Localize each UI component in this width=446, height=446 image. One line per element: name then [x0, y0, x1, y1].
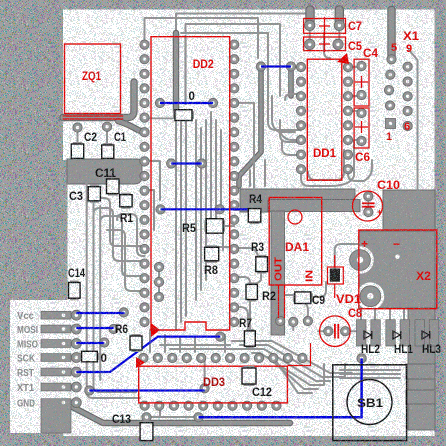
blue wire RST — [76, 337, 220, 372]
resistor R4 — [250, 207, 259, 211]
wire: diagonal bus from DD3 to SB1/HL — [232, 341, 352, 373]
LED HL1 symbol — [393, 331, 401, 339]
X1 square pad pin1 — [386, 119, 396, 129]
blue wire net 0 jumper — [160, 102, 213, 104]
wire: verticals inside DD2 lower area — [175, 120, 177, 330]
jumper 0 top — [173, 111, 177, 119]
pour: vertical bar left of DA1 — [271, 211, 285, 335]
DD3 pads top row — [139, 353, 148, 362]
capacitor C10 — [353, 191, 383, 221]
capacitor C4 pads — [357, 61, 366, 70]
capacitor C9 — [293, 293, 297, 302]
blue wire Vcc — [76, 311, 123, 314]
wire: traces between DD2 bottom and DD3 — [149, 330, 151, 352]
crystal ZQ1 — [65, 44, 121, 114]
red net line near DD3/VD1 — [287, 343, 310, 366]
wire: staircase from bus to DD2 left pads — [87, 198, 145, 246]
resistor R2 — [248, 282, 256, 286]
LED HL3 pads — [415, 320, 425, 346]
capacitor C8 pads — [324, 327, 333, 336]
wire: connector row stubs — [76, 314, 80, 316]
capacitor C10 pads — [364, 192, 373, 201]
pour: X2 interior — [359, 231, 435, 308]
DD1 IC pads right column — [343, 62, 352, 71]
blue wire to R4 — [161, 208, 251, 210]
capacitor C4 — [354, 59, 369, 106]
wire: DD1 right side / C4 C6 links — [348, 66, 356, 68]
capacitor C5 — [304, 37, 346, 51]
GND finger bar (tall, joins ground) — [41, 399, 71, 433]
jumper 0 SCK — [80, 353, 84, 361]
wire: DD3 bottom pad runs — [159, 406, 161, 417]
blue wire MOSI — [76, 327, 113, 329]
resistor R7 — [246, 329, 254, 333]
wire: DD2 right pads to R5/R8 — [206, 225, 234, 227]
capacitor C12 — [244, 366, 255, 370]
wire bundle: top horizontal traces over DD2 — [145, 18, 259, 58]
resistor R1 — [121, 193, 130, 197]
wire: DA1 pad links — [279, 321, 281, 335]
connector X1 pads — [387, 55, 396, 64]
wire: wide verticals inside DD2 top — [173, 33, 179, 112]
IC DD1 — [307, 59, 342, 180]
wire: R3/R2/R7 links — [234, 248, 258, 256]
wire: X1 wide feed from board top — [387, 10, 395, 59]
capacitor C2 — [73, 142, 82, 146]
crystal ZQ1 pads — [73, 123, 82, 132]
blue wire MISO — [76, 342, 104, 344]
LED HL1 pads — [386, 320, 396, 346]
X2 pour hole — [395, 255, 399, 259]
DD2 IC pads right column — [230, 40, 239, 49]
diode VD1 — [328, 267, 344, 284]
DD3 pads bottom row — [140, 401, 149, 410]
capacitor C11 — [108, 177, 118, 181]
LED HL2 pads — [357, 320, 367, 346]
connector X2 — [359, 230, 437, 309]
capacitor C7 — [304, 19, 346, 34]
capacitor C1 — [103, 143, 112, 147]
wire: DD1 left corner traces — [290, 67, 301, 90]
resistor R5 — [204, 220, 208, 232]
capacitor C8 — [320, 316, 351, 347]
DD1 IC pads left column — [296, 62, 305, 71]
wire: DD2 left pad joins — [145, 161, 161, 200]
DA1 regulator pads — [276, 316, 285, 325]
wire: C7/C5 wide feed from board top — [305, 10, 314, 25]
ISP connector pads — [71, 310, 81, 320]
wire: HL feeds from pour — [360, 308, 362, 322]
capacitor C6 pads — [357, 108, 366, 117]
capacitor C6 — [354, 108, 369, 148]
connector X2 mounting pads — [350, 250, 371, 271]
capacitor C14 — [70, 281, 79, 285]
blue wire top — [261, 65, 291, 67]
ISP connector finger bars — [41, 311, 71, 319]
pour: left copper area near ZQ1/C2/C1 — [67, 159, 142, 184]
pour: wide band to C10 — [240, 189, 355, 212]
wire: long vertical pair between DD2 and DD1 — [239, 67, 261, 187]
wire: SB1 top traces — [340, 369, 400, 371]
wire: R4 row — [234, 103, 254, 208]
pour: right strip below X2 — [408, 308, 435, 430]
IC DD3 — [139, 366, 288, 403]
X2 pad clearance halos — [346, 246, 374, 274]
pour: band under DA1 top — [268, 200, 360, 212]
via pads misc — [256, 62, 265, 71]
wire: C10 pads link — [367, 196, 369, 212]
wire: bottom wide ground run — [63, 402, 290, 423]
wire: C9/VD1 links — [280, 294, 293, 296]
capacitor C7 pads — [305, 20, 315, 30]
wire: DD2 pad stub to jumper 0 — [145, 117, 174, 119]
wire: left vertical bus from connector — [87, 184, 140, 398]
wire: X1 diagonal to right — [409, 50, 418, 190]
capacitor C13 — [142, 421, 152, 425]
via pads column x159 — [154, 262, 163, 271]
wire: DD1 bottom loops to C10 band — [301, 140, 354, 186]
capacitor C5 pads — [305, 39, 315, 49]
capacitor C3 — [90, 185, 99, 189]
resistor R8 — [206, 245, 217, 249]
button SB1 — [333, 365, 407, 441]
IC DD2 — [151, 37, 230, 330]
wire: ZQ1 connection wide trace — [63, 82, 134, 118]
resistor R6 — [132, 334, 141, 338]
wire: comb pads column links — [158, 267, 160, 297]
LED HL2 symbol — [364, 331, 372, 339]
LED HL3 symbol — [422, 331, 430, 339]
blue wire XT1 — [89, 389, 204, 391]
wire: C8 links — [318, 330, 328, 332]
blue wire mid — [171, 162, 202, 164]
pour: right area above X2 — [383, 190, 435, 230]
regulator DA1 — [269, 198, 322, 286]
blue wire SB1 — [199, 358, 362, 417]
DD2 IC pads left column — [140, 40, 149, 49]
pour: band right of SB1 — [406, 364, 435, 379]
resistor R3 — [257, 255, 266, 259]
